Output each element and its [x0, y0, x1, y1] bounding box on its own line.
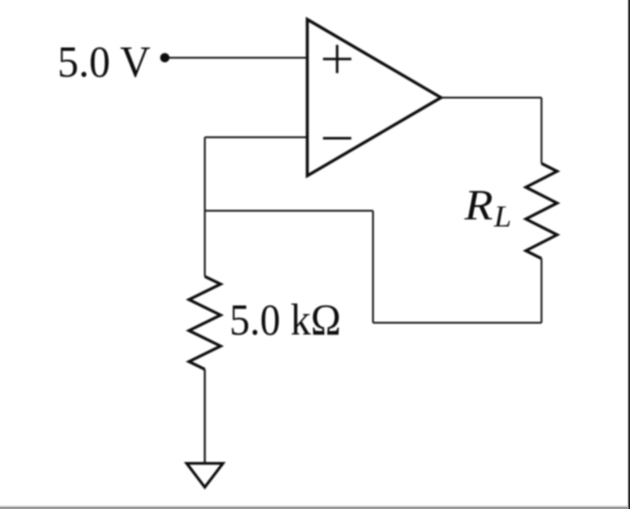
bottom border line (light ramp) — [0, 506, 630, 507]
wire: node down to resistor R1 — [204, 211, 206, 277]
wire: bottom horizontal (RL to feedback column) — [373, 322, 542, 324]
svg-text:5.0 kΩ: 5.0 kΩ — [230, 296, 342, 345]
ground — [187, 463, 223, 487]
wire: source to op-amp + input — [165, 57, 307, 59]
wire: resistor R1 to ground — [204, 369, 206, 463]
svg-text:L: L — [493, 199, 512, 234]
op-amp U1 — [307, 19, 441, 175]
resistor R1 5.0 kOhm — [189, 276, 221, 369]
svg-text:R: R — [463, 183, 493, 230]
op-amp + input marker — [323, 45, 351, 73]
bottom border line — [0, 507, 630, 509]
wire: inverting input down to node — [204, 137, 206, 211]
right border line — [629, 0, 630, 509]
wire: feedback horizontal to node — [205, 210, 373, 212]
wire: op-amp output — [441, 97, 542, 99]
node dot (source terminal) — [160, 53, 169, 62]
resistor RL — [526, 163, 557, 258]
svg-text:5.0 V: 5.0 V — [58, 38, 151, 87]
wire: feedback column up — [372, 211, 374, 323]
wire: output down to RL top — [541, 98, 543, 164]
wire: RL bottom down — [541, 259, 543, 323]
wire: inverting input horizontal — [205, 136, 307, 138]
right border line (light ramp) — [628, 0, 629, 509]
op-amp - input marker — [323, 137, 351, 140]
